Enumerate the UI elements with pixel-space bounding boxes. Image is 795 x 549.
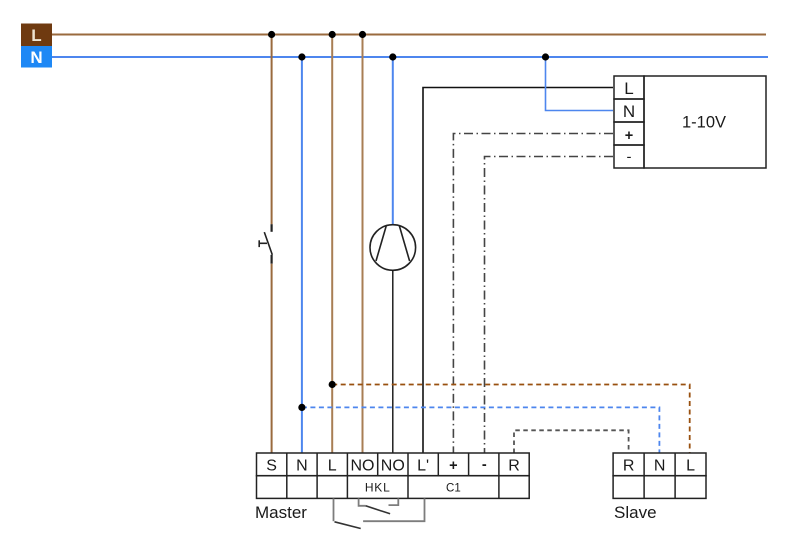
svg-text:+: + <box>625 128 633 144</box>
Slave terminal block <box>613 453 706 498</box>
wire Master L to Slave L (brown dashed) <box>332 385 690 454</box>
wire switch to Master S (brown) <box>271 264 273 453</box>
wire fan M1 to Master NO (black) <box>392 270 394 453</box>
svg-text:NO: NO <box>351 458 375 475</box>
control wire 1-10V - to Master - (dash-dot) <box>485 157 614 454</box>
svg-text:L: L <box>31 26 41 45</box>
svg-text:L: L <box>328 458 337 475</box>
svg-text:N: N <box>296 458 308 475</box>
wire Master R to Slave R (gray dashed) <box>514 430 629 453</box>
svg-text:-: - <box>482 457 487 473</box>
svg-text:N: N <box>623 102 635 121</box>
junction dot N-rail / 1-10V N wire <box>542 53 549 60</box>
svg-text:1-10V: 1-10V <box>682 114 726 132</box>
svg-text:R: R <box>623 458 635 475</box>
svg-text:S: S <box>266 458 277 475</box>
svg-text:C1: C1 <box>446 483 461 495</box>
wire N-rail to fan M1 (blue) <box>392 57 394 225</box>
switch S1 <box>259 224 272 264</box>
wire N-rail to 1-10V N (blue) <box>546 57 614 111</box>
fan M1 <box>370 225 416 271</box>
junction dot N-rail / fan wire <box>389 53 396 60</box>
svg-text:L: L <box>624 79 633 98</box>
svg-text:-: - <box>627 149 632 166</box>
junction dot N wire / blue dashed <box>298 404 305 411</box>
wire L-rail to switch (brown, to Master S) <box>271 35 273 225</box>
wire N-rail to Master N (blue) <box>301 57 303 453</box>
svg-text:N: N <box>654 458 666 475</box>
control wire 1-10V + to Master + (dash-dot) <box>453 134 613 454</box>
wire Master L' to 1-10V L (black) <box>423 88 613 454</box>
junction dot N-rail / N wire <box>298 53 305 60</box>
svg-text:R: R <box>508 458 520 475</box>
svg-text:HKL: HKL <box>365 481 391 495</box>
wire Master N to Slave N (blue dashed) <box>302 407 660 453</box>
junction dot L-rail / NO wire <box>359 31 366 38</box>
junction dot L-rail / L wire <box>329 31 336 38</box>
N rail label box <box>21 46 52 68</box>
svg-text:L': L' <box>417 458 429 475</box>
junction dot L wire / brown dashed <box>329 381 336 388</box>
svg-text:+: + <box>449 458 457 474</box>
ballast 1-10V U1 <box>614 76 766 168</box>
wire L-rail to Master NO (brown) <box>362 35 364 454</box>
N neutral rail <box>52 56 768 58</box>
wire L-rail to Master L (brown) <box>331 35 333 454</box>
Master terminal block <box>257 453 530 498</box>
svg-text:N: N <box>30 48 42 67</box>
junction dot L-rail / S wire <box>268 31 275 38</box>
relay contact HKL (NO-NO) <box>359 498 399 513</box>
svg-text:L: L <box>686 458 695 475</box>
svg-text:Slave: Slave <box>614 503 657 522</box>
L phase rail <box>52 34 766 36</box>
L rail label box <box>21 24 52 47</box>
svg-text:NO: NO <box>381 458 405 475</box>
svg-text:Master: Master <box>255 503 307 522</box>
relay contact C1 (L-L') <box>334 498 425 528</box>
